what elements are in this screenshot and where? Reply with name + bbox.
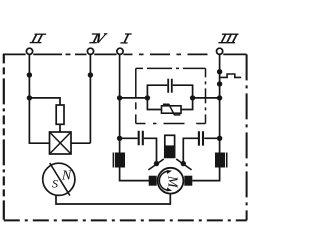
terminal III bbox=[217, 48, 223, 54]
node dot I line y138 bbox=[117, 136, 122, 141]
node dot III y72 bbox=[217, 69, 222, 74]
brush left bbox=[149, 176, 157, 186]
varistor R2 body bbox=[162, 106, 182, 113]
node dot III y84 bbox=[217, 81, 222, 86]
frame bottom edge bbox=[4, 219, 247, 221]
terminal I bbox=[117, 48, 123, 54]
node dot III y138 bbox=[217, 136, 222, 141]
suppressor dash-dot box bottom edge bbox=[136, 123, 206, 125]
magneto diagonal bbox=[50, 163, 70, 196]
wire: terminal I drop bbox=[119, 54, 121, 152]
terminal II bbox=[26, 48, 32, 54]
capacitor C3 plates bbox=[199, 131, 203, 145]
choke L1 core line bbox=[112, 153, 114, 168]
node dot right brush lead bbox=[181, 161, 186, 166]
wire: right capacitor branch bbox=[183, 138, 219, 161]
motor rotation arc arrow bbox=[159, 171, 167, 190]
wire: resistor to lamp box bbox=[59, 124, 61, 132]
lamp box X bbox=[50, 132, 72, 154]
label IV bbox=[89, 34, 107, 43]
choke L2 bbox=[215, 153, 225, 168]
wire: terminal III drop bbox=[219, 54, 221, 152]
suppressor dash-dot box top edge bbox=[136, 67, 206, 69]
varistor diagonal bbox=[163, 104, 181, 115]
arc arrowhead top bbox=[167, 170, 172, 174]
wire: right brush feed bbox=[192, 168, 219, 181]
thermal element filled half bbox=[165, 145, 175, 157]
capacitor C1 plates bbox=[168, 79, 172, 93]
choke L1 bbox=[115, 153, 125, 168]
svg-text:S: S bbox=[52, 176, 58, 190]
frame left edge bbox=[3, 54, 5, 219]
node dot on II line y98 bbox=[27, 95, 32, 100]
wire: left brush feed bbox=[120, 168, 149, 181]
brush right bbox=[184, 176, 192, 186]
brush lead diagonal right bbox=[176, 159, 191, 170]
terminal IV bbox=[87, 48, 93, 54]
brush lead diagonal left bbox=[148, 159, 163, 170]
node dot I line y98 bbox=[117, 95, 122, 100]
thermal switch step contact bbox=[220, 74, 242, 77]
wire: main wire I to network bbox=[120, 97, 148, 99]
label I bbox=[120, 34, 131, 43]
capacitor C2 plates bbox=[139, 131, 143, 146]
node dot on II line y75 bbox=[27, 72, 32, 77]
resistor R bbox=[56, 105, 64, 124]
frame right edge bbox=[246, 54, 248, 220]
wire: network top branch bbox=[147, 85, 192, 98]
svg-text:M: M bbox=[164, 175, 179, 189]
wire: resistor tap bbox=[29, 98, 60, 105]
label III bbox=[218, 34, 238, 43]
node dot III y98 bbox=[217, 95, 222, 100]
motor M circle bbox=[158, 168, 184, 194]
wire: terminal II drop bbox=[29, 54, 49, 143]
node dot network left bbox=[145, 95, 150, 100]
frame top boundary line bbox=[3, 53, 247, 55]
wire: magneto to motor bottom bbox=[56, 194, 170, 204]
label II bbox=[30, 34, 47, 42]
wire: lamp box to IV line bbox=[71, 142, 90, 144]
svg-text:N: N bbox=[61, 169, 72, 184]
node dot network right bbox=[190, 95, 195, 100]
thermal element body bbox=[165, 135, 175, 157]
choke L2 core line bbox=[226, 153, 228, 168]
wire: left capacitor branch bbox=[120, 138, 157, 161]
wire: network bottom branch bbox=[147, 98, 192, 110]
wire: terminal IV drop bbox=[89, 54, 91, 143]
suppressor dash-dot box left edge bbox=[135, 68, 137, 123]
node dot left brush lead bbox=[154, 161, 159, 166]
arc arrowhead bottom bbox=[167, 187, 172, 191]
wire: network to III line bbox=[193, 97, 220, 99]
node dot on IV line y75 bbox=[88, 72, 93, 77]
suppressor dash-dot box right edge bbox=[205, 68, 207, 123]
magneto generator circle bbox=[43, 163, 75, 195]
